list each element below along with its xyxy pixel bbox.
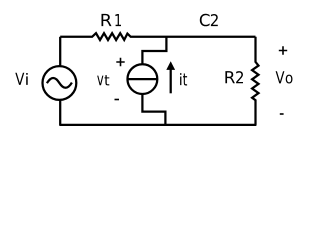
wire dependent source top jog — [142, 37, 166, 64]
wire right branch with resistor R2 zigzag — [252, 37, 258, 125]
wire top rail with resistor R1 zigzag — [60, 33, 255, 40]
minus sign vt — [115, 99, 120, 101]
wire dependent source bottom jog — [142, 94, 165, 125]
label Vi — [15, 73, 27, 85]
current arrow it — [170, 69, 172, 93]
label vt — [97, 75, 109, 85]
wire bottom rail — [59, 124, 256, 126]
label C2 — [200, 14, 218, 26]
wire left branch lower — [59, 100, 61, 125]
wire left branch upper — [59, 37, 61, 66]
plus sign vt — [116, 58, 124, 66]
source Vi sine wave — [47, 78, 72, 88]
current source it circle — [127, 64, 157, 94]
label it — [180, 73, 187, 85]
label Vo — [276, 71, 293, 83]
current source bar — [128, 78, 158, 80]
label R2 — [225, 71, 243, 83]
minus sign Vo — [280, 113, 284, 115]
source Vi circle — [43, 66, 77, 100]
plus sign Vo — [279, 46, 287, 54]
label R1 — [102, 14, 122, 26]
